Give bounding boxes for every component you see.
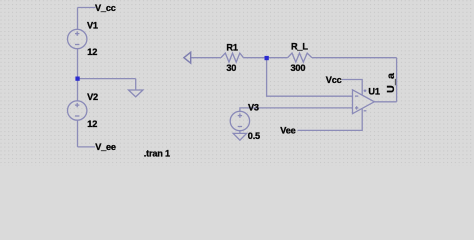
svg-text:R1: R1 (226, 42, 237, 52)
wire output right vertical (396, 58, 398, 102)
op-amp U1 (353, 89, 375, 113)
plus mark at V+ pin (364, 90, 367, 92)
voltage source V1 (68, 29, 87, 48)
svg-text:Vee: Vee (280, 126, 295, 136)
svg-text:V2: V2 (87, 92, 98, 102)
ground (left) (129, 90, 143, 97)
wire op-amp output (374, 101, 396, 103)
resistor R_L (288, 53, 312, 62)
wire V3 to non-inverting input (240, 108, 353, 112)
inverting input minus mark (355, 95, 358, 97)
wire junction to ground branch (78, 78, 136, 80)
svg-text:300: 300 (291, 63, 306, 73)
minus mark at V- pin (364, 110, 367, 112)
wire R1 to R_L (244, 57, 288, 59)
wire V3 bottom stub (239, 131, 241, 134)
svg-text:12: 12 (87, 119, 97, 129)
svg-text:V3: V3 (248, 103, 259, 113)
ground (V3) (233, 133, 246, 140)
svg-text:.tran 1: .tran 1 (144, 148, 170, 158)
port arrow (input flag) (184, 52, 191, 63)
wire R_L right (312, 57, 397, 59)
svg-text:Vcc: Vcc (326, 75, 342, 85)
svg-text:R_L: R_L (291, 41, 308, 51)
wire V_ee label stub (78, 146, 96, 148)
svg-text:V_cc: V_cc (95, 3, 116, 13)
svg-text:U1: U1 (368, 87, 379, 97)
wire junction down to inverting input (267, 58, 353, 96)
wire V_cc label stub (78, 7, 96, 9)
junction node (R1/R_L/inverting input) (265, 56, 269, 60)
svg-text:V_ee: V_ee (95, 142, 116, 152)
non-inverting input plus mark (355, 107, 358, 109)
voltage source V3 (230, 111, 249, 130)
wire top to V1 (77, 8, 79, 30)
svg-text:0.5: 0.5 (248, 131, 260, 141)
wire V1 bottom to V2 top (77, 49, 79, 101)
svg-text:V1: V1 (87, 21, 98, 31)
wire V2 bottom (77, 120, 79, 147)
svg-text:30: 30 (226, 63, 236, 73)
voltage source V2 (68, 101, 87, 120)
junction node (left rail to ground) (75, 77, 79, 81)
wire ground stub (135, 79, 137, 90)
svg-text:12: 12 (87, 47, 97, 57)
svg-text:U_a: U_a (385, 73, 397, 93)
wire Vcc to op-amp (342, 80, 362, 95)
resistor R1 (221, 53, 244, 62)
wire arrow to R1 (191, 57, 221, 59)
wire Vee to op-amp (298, 108, 363, 130)
